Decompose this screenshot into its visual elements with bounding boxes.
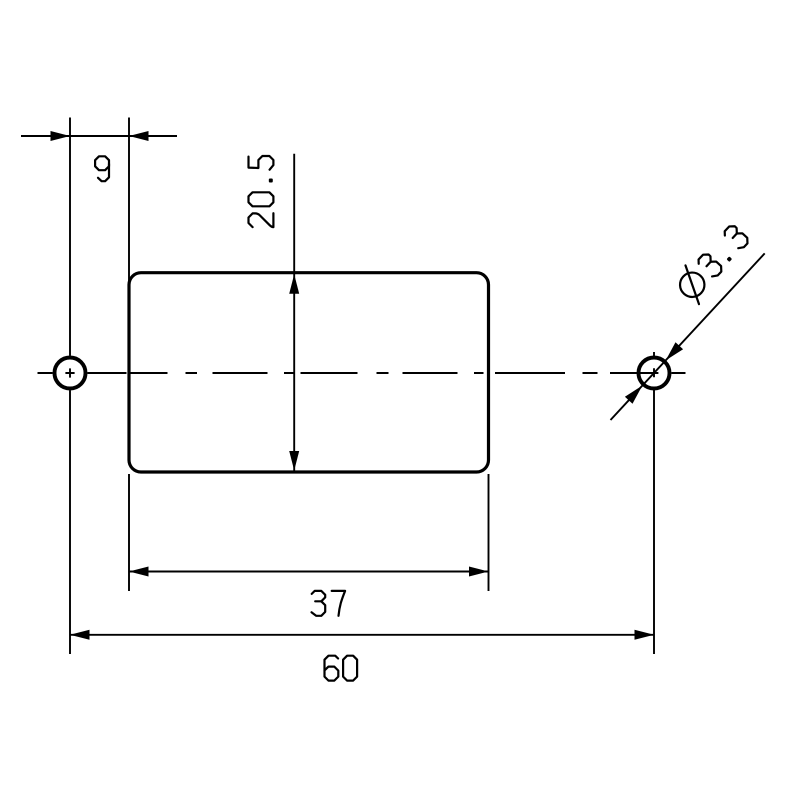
dimension 60: text — [325, 656, 339, 681]
dimension 60: left arrowhead — [70, 630, 90, 640]
dimension 9: dimension line — [21, 135, 177, 137]
panel cutout (rounded rectangle 37 x 20.5) — [129, 273, 489, 472]
vertical centerline / extension through left hole — [69, 118, 71, 655]
dimension 9: right arrowhead — [129, 131, 149, 141]
dimension 20.5: text (rotated) — [249, 156, 274, 227]
dimension 37: dimension line — [129, 571, 489, 573]
dimension 20.5: bottom arrowhead — [289, 451, 299, 471]
dimension 20.5: dimension line — [293, 154, 295, 471]
leader upper arrowhead — [666, 342, 683, 360]
dimension 60: right arrowhead — [635, 630, 655, 640]
vertical centerline / extension through right hole — [653, 352, 655, 654]
dimension 37: extension lines — [129, 474, 489, 591]
horizontal centerline (dash-dot) — [38, 372, 686, 374]
hole H1 (left circle) — [55, 358, 86, 389]
dimension 9: left arrowhead — [51, 131, 71, 141]
dimension 37: left arrowhead — [129, 567, 149, 577]
hole H2 (right circle) — [639, 358, 670, 389]
dimension 37: right arrowhead — [469, 567, 489, 577]
dimension text Ø3.3 (rotated) — [671, 220, 755, 306]
dimension 9: text — [95, 156, 109, 181]
dimension 60: dimension line — [70, 634, 654, 636]
hole H2 center cross — [649, 368, 658, 377]
diameter leader line for hole H2 — [611, 253, 765, 420]
leader lower arrowhead — [625, 386, 642, 404]
dimension 20.5: top arrowhead — [289, 274, 299, 294]
dimension 9: extension line at cutout left edge — [128, 118, 130, 285]
hole H1 center cross — [65, 368, 74, 377]
dimension 37: text — [312, 591, 326, 616]
